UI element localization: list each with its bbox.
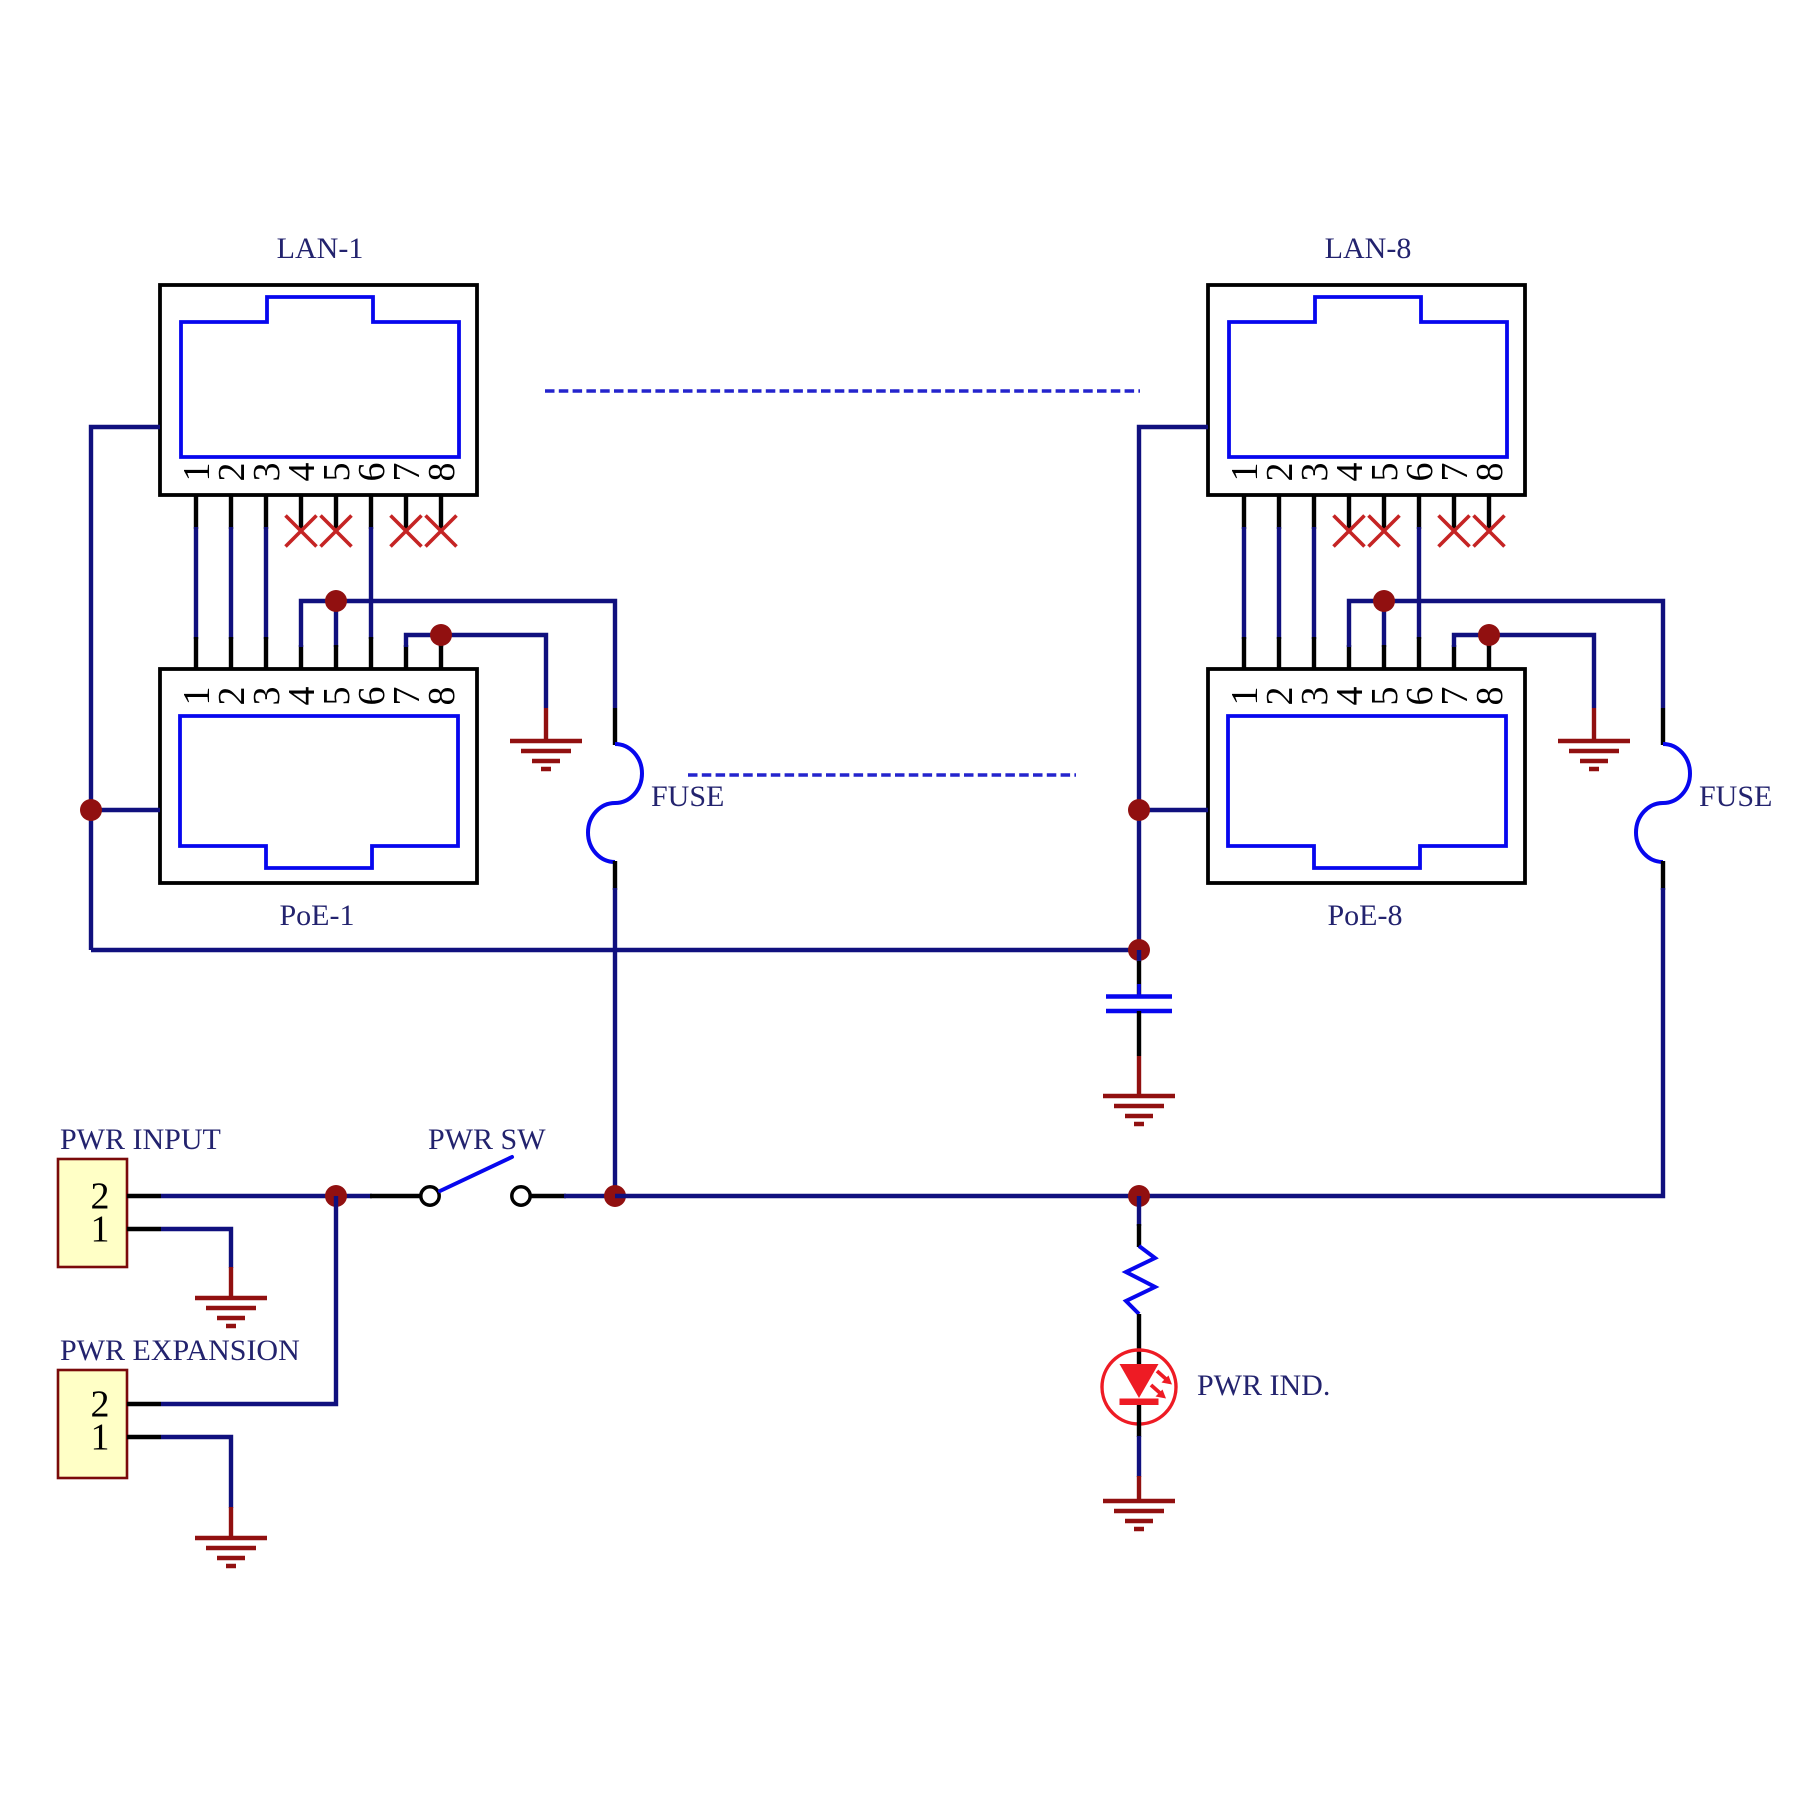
connector LAN-8 jack outline (1229, 297, 1507, 457)
ground (PWR INPUT) (195, 1298, 267, 1326)
connector LAN-1 (RJ45 jack) body (160, 285, 477, 495)
wire fuse F8 to bus (1139, 888, 1663, 1196)
wire LAN-8.2 to PoE-8.2 (1277, 527, 1281, 639)
svg-text:PoE-1: PoE-1 (280, 899, 355, 932)
PoE-1 pin 6 stub (369, 637, 373, 669)
ground (pins7/8 net PoE-1) (510, 741, 582, 769)
wire LAN-1.3 to PoE-1.3 (264, 527, 268, 639)
fuse F1 bottom pin (613, 861, 617, 890)
connector LAN-8 (RJ45 jack) body (1208, 285, 1525, 495)
svg-text:PWR IND.: PWR IND. (1197, 1369, 1330, 1402)
wire PoE-8 pin8 riser (1487, 635, 1491, 647)
LED PWR IND light rays (1151, 1371, 1172, 1399)
wire pins4/5 to fuse (y=601) (1349, 601, 1663, 708)
junction pin8 net PoE-8 (1478, 624, 1500, 646)
PoE-8 pin 8 stub (1487, 645, 1491, 669)
connector PoE-8 pin numbers 1-8 (1224, 687, 1511, 706)
label LAN-8 (1325, 232, 1412, 265)
wire PWR EXPANSION pin1 to ground (161, 1437, 231, 1508)
junction capacitor top / V+ feed (1128, 939, 1150, 961)
LED PWR IND cathode pin (1137, 1405, 1141, 1437)
wire PWR INPUT pin1 to ground (161, 1229, 231, 1268)
label FUSE (8) (1699, 780, 1772, 813)
LAN-8 pin 8 stub (unconnected) (1487, 495, 1491, 531)
switch PWR SW left pin (370, 1194, 421, 1198)
ground (pins7/8 net PoE-8) (1558, 741, 1630, 769)
wire V+ feed (y=950) (91, 948, 1139, 952)
LAN-1 pin 3 stub (264, 495, 268, 529)
LAN-8 pin 4 stub (unconnected) (1347, 495, 1351, 531)
resistor R1 bottom pin / LED anode (1137, 1314, 1141, 1365)
fuse F8 bottom pin (1661, 861, 1665, 890)
no-connect X on LAN-8 pin 7 (1439, 516, 1470, 547)
PoE-8 pin 5 stub (1382, 645, 1386, 669)
PoE-1 pin 7 stub (404, 645, 408, 669)
PWR EXPANSION pin 1 stub (127, 1435, 161, 1439)
connector PoE-1 (RJ45 jack) body (160, 669, 477, 883)
wire PoE-1 pin5 riser (334, 601, 338, 647)
junction trunk/PoE-1 shield (80, 799, 102, 821)
svg-text:FUSE: FUSE (1699, 780, 1772, 813)
PoE-8 pin 6 stub (1417, 637, 1421, 669)
svg-text:LAN-1: LAN-1 (277, 232, 364, 265)
fuse F8 (1636, 744, 1690, 862)
PoE-1 pin 8 stub (439, 645, 443, 669)
PWR EXPANSION pin 2 stub (127, 1402, 161, 1406)
svg-text:PWR INPUT: PWR INPUT (60, 1123, 221, 1156)
wire bus switch to left fuse (564, 1194, 615, 1198)
LAN-1 pin 7 stub (unconnected) (404, 495, 408, 531)
wire LAN-8 shield to trunk (1139, 427, 1208, 950)
wire LAN-1.1 to PoE-1.1 (194, 527, 198, 639)
ground lead (LED) (1137, 1476, 1141, 1501)
LAN-8 pin 7 stub (unconnected) (1452, 495, 1456, 531)
wire capacitor from junction (1137, 950, 1141, 962)
wire LAN-1.2 to PoE-1.2 (229, 527, 233, 639)
svg-text:PWR EXPANSION: PWR EXPANSION (60, 1334, 300, 1367)
wire bus PWR input segment (161, 1194, 372, 1198)
ellipsis dashed line (fuse nets) (688, 773, 1076, 776)
PWR EXPANSION pin 1 number (91, 1417, 110, 1459)
label PoE-1 (280, 899, 355, 932)
junction pin5 net PoE-1 (325, 590, 347, 612)
ground lead (pins7/8 net) (544, 708, 548, 741)
LAN-8 pin 1 stub (1242, 495, 1246, 529)
PWR EXPANSION pin 2 number (91, 1384, 110, 1426)
PoE-1 pin 5 stub (334, 645, 338, 669)
ground lead (pins7/8 net) (1592, 708, 1596, 741)
LAN-1 pin 2 stub (229, 495, 233, 529)
connector PoE-8 (RJ45 jack) body (1208, 669, 1525, 883)
junction bus / PWR branches (325, 1185, 347, 1207)
label PWR IND. (1197, 1369, 1330, 1402)
wire trunk to PoE-8 shield (1139, 808, 1208, 812)
connector PoE-1 pin numbers 1-8 (176, 687, 463, 706)
connector LAN-1 pin numbers 1-8 (176, 463, 463, 482)
switch PWR SW right pin (531, 1194, 567, 1198)
ground lead (PWR EXPANSION) (229, 1507, 233, 1538)
PoE-1 pin 4 stub (299, 645, 303, 669)
PoE-1 pin 3 stub (264, 637, 268, 669)
LAN-8 pin 3 stub (1312, 495, 1316, 529)
svg-text:8: 8 (421, 687, 463, 706)
resistor R1 (1126, 1246, 1155, 1314)
no-connect X on LAN-1 pin 8 (426, 516, 457, 547)
fuse F1 top pin (613, 708, 617, 745)
fuse F8 top pin (1661, 708, 1665, 745)
PoE-8 pin 2 stub (1277, 637, 1281, 669)
wire trunk to PoE-1 shield (91, 808, 160, 812)
ground (capacitor) (1103, 1096, 1175, 1124)
no-connect X on LAN-8 pin 4 (1334, 516, 1365, 547)
wire LAN-8.6 to PoE-8.6 (1417, 527, 1421, 639)
wire PoE-8 pin5 riser (1382, 601, 1386, 647)
ground (LED) (1103, 1501, 1175, 1529)
label PWR SW (428, 1123, 546, 1156)
junction pin8 net PoE-1 (430, 624, 452, 646)
svg-text:LAN-8: LAN-8 (1325, 232, 1412, 265)
junction pin5 net PoE-8 (1373, 590, 1395, 612)
no-connect X on LAN-1 pin 7 (391, 516, 422, 547)
wire fuse F1 to bus (613, 888, 617, 1198)
wire PWR EXPANSION branch (161, 1196, 336, 1404)
ground (PWR EXPANSION) (195, 1538, 267, 1566)
PWR INPUT pin 1 stub (127, 1227, 161, 1231)
PoE-8 pin 7 stub (1452, 645, 1456, 669)
fuse F1 (588, 744, 642, 862)
connector PoE-1 jack outline (180, 716, 458, 868)
junction trunk/PoE-8 shield (1128, 799, 1150, 821)
LED PWR IND triangle (1120, 1364, 1159, 1398)
ground lead (capacitor) (1137, 1056, 1141, 1096)
LAN-8 pin 2 stub (1277, 495, 1281, 529)
wire LAN-8.3 to PoE-8.3 (1312, 527, 1316, 639)
wire pins7/8 to ground (y=635) (406, 635, 546, 708)
svg-text:PoE-8: PoE-8 (1328, 899, 1403, 932)
connector LAN-8 pin numbers 1-8 (1224, 463, 1511, 482)
ellipsis dashed line (LAN-1 ... LAN-8) (545, 389, 1140, 392)
wire pins7/8 to ground (y=635) (1454, 635, 1594, 708)
connector PWR INPUT body (58, 1159, 127, 1267)
label LAN-1 (277, 232, 364, 265)
PoE-8 pin 3 stub (1312, 637, 1316, 669)
connector LAN-1 jack outline (181, 297, 459, 457)
svg-text:1: 1 (91, 1417, 110, 1459)
wire LED to ground (1137, 1436, 1141, 1477)
wire LAN-8.1 to PoE-8.1 (1242, 527, 1246, 639)
label PWR EXPANSION (60, 1334, 300, 1367)
wire bus main segment (615, 1194, 1141, 1198)
LAN-1 pin 8 stub (unconnected) (439, 495, 443, 531)
wire pins4/5 to fuse (y=601) (301, 601, 615, 708)
LED PWR IND body (1102, 1350, 1176, 1424)
LAN-1 pin 5 stub (unconnected) (334, 495, 338, 531)
connector PWR EXPANSION body (58, 1370, 127, 1478)
no-connect X on LAN-8 pin 8 (1474, 516, 1505, 547)
PoE-8 pin 1 stub (1242, 637, 1246, 669)
label PoE-8 (1328, 899, 1403, 932)
LAN-8 pin 5 stub (unconnected) (1382, 495, 1386, 531)
LAN-1 pin 1 stub (194, 495, 198, 529)
label PWR INPUT (60, 1123, 221, 1156)
LED PWR IND cathode bar (1120, 1399, 1159, 1406)
label FUSE (1) (651, 780, 724, 813)
ground lead (PWR INPUT) (229, 1267, 233, 1298)
switch PWR SW pole contact (421, 1187, 439, 1205)
PWR INPUT pin 1 number (91, 1209, 110, 1251)
LAN-1 pin 6 stub (369, 495, 373, 529)
PoE-1 pin 2 stub (229, 637, 233, 669)
switch PWR SW throw contact (512, 1187, 530, 1205)
capacitor C1 top pin (1137, 961, 1141, 996)
PoE-8 pin 4 stub (1347, 645, 1351, 669)
wire LAN-1 shield to trunk (91, 427, 160, 950)
switch PWR SW lever (440, 1157, 512, 1191)
svg-text:1: 1 (91, 1209, 110, 1251)
capacitor C1 bottom pin (1137, 1011, 1141, 1056)
PWR INPUT pin 2 stub (127, 1194, 161, 1198)
PWR INPUT pin 2 number (91, 1176, 110, 1218)
wire LAN-1.6 to PoE-1.6 (369, 527, 373, 639)
junction bus / fuse F1 (604, 1185, 626, 1207)
svg-text:FUSE: FUSE (651, 780, 724, 813)
wire PoE-1 pin8 riser (439, 635, 443, 647)
connector PoE-8 jack outline (1228, 716, 1506, 868)
svg-text:8: 8 (1469, 687, 1511, 706)
resistor R1 top pin (1137, 1224, 1141, 1247)
PoE-1 pin 1 stub (194, 637, 198, 669)
no-connect X on LAN-1 pin 5 (321, 516, 352, 547)
svg-text:PWR SW: PWR SW (428, 1123, 546, 1156)
wire bus to resistor (1137, 1196, 1141, 1226)
no-connect X on LAN-8 pin 5 (1369, 516, 1400, 547)
capacitor C1 (1106, 984, 1172, 1026)
svg-text:8: 8 (1469, 463, 1511, 482)
LAN-8 pin 6 stub (1417, 495, 1421, 529)
junction bus / LED branch (1128, 1185, 1150, 1207)
LAN-1 pin 4 stub (unconnected) (299, 495, 303, 531)
no-connect X on LAN-1 pin 4 (286, 516, 317, 547)
svg-text:8: 8 (421, 463, 463, 482)
